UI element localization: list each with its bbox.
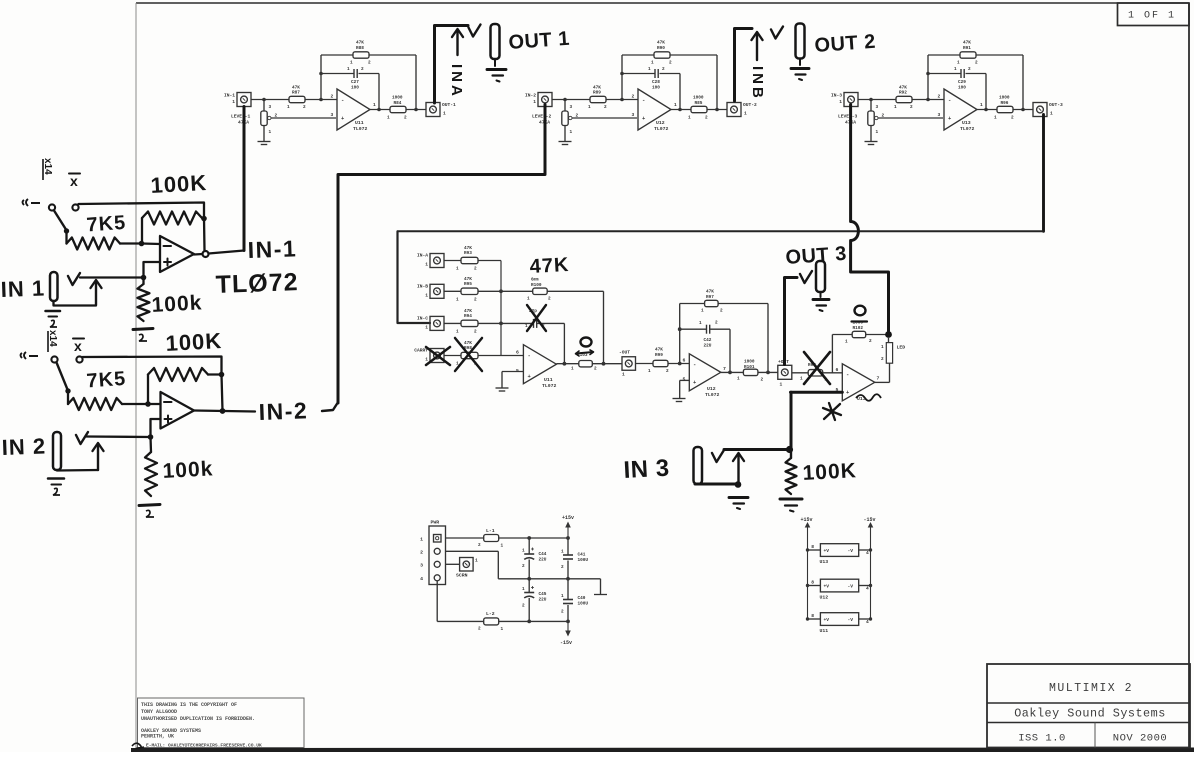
hand wire OUT-2 up: [735, 29, 753, 102]
hand wire minus input IN2: [148, 403, 161, 405]
hand wire +OUT up to OUT3 jack: [785, 278, 798, 365]
hand check mark at OUT1: [469, 25, 481, 37]
wire U11 output to R103: [556, 362, 578, 366]
hand X over CARRY connector: [426, 347, 450, 365]
svg-text:7K5: 7K5: [86, 212, 127, 237]
op-amp U12 mixer: [683, 354, 727, 398]
hand junction dot plus node IN1: [141, 275, 147, 281]
input connector IN-2: [525, 93, 552, 107]
hand label xbar IN1: [69, 173, 80, 189]
hand feedback resistor 100K IN1: [142, 212, 207, 251]
svg-text:x: x: [70, 173, 79, 189]
hand input jack IN2: [53, 432, 61, 470]
+15V arrow and label: [562, 515, 574, 538]
hand wire IN-3 down to U13 node with hop: [851, 105, 889, 332]
hand O mark above R102: [855, 306, 866, 316]
wire bus down to mixer IN-C: [398, 231, 431, 323]
ground at U11 pin5: [496, 372, 524, 392]
ground under LEVEL-3: [865, 141, 878, 143]
feedback resistor R100 47K: [501, 279, 604, 364]
svg-text:x: x: [74, 338, 83, 354]
ground under LEVEL-1: [258, 141, 271, 143]
level pot LEVEL-3: [838, 100, 885, 142]
long horizontal bus wire OUT-3 to IN-C: [398, 230, 1044, 232]
feedback net U11: [319, 55, 416, 110]
svg-text:IN 2: IN 2: [1, 433, 46, 460]
bottom scan edge band: [131, 748, 1194, 753]
hand arrow to IN B: [756, 34, 758, 60]
hand label x14 rotated IN1: [42, 158, 53, 180]
hand arrow to IN A: [456, 31, 458, 55]
capacitor C44 22u: [522, 538, 547, 579]
hand switch IN1: [49, 204, 79, 233]
hand hook IN-2 to vertical: [322, 403, 338, 411]
resistor R85 1000: [688, 96, 727, 121]
op-amp U12 buffer: [632, 89, 678, 132]
hand arrow IN1: [95, 282, 97, 305]
capacitor C27 100: [347, 67, 364, 91]
connector -OUT: [619, 350, 653, 378]
output connector OUT-2: [727, 102, 757, 117]
hand resistor 7K5 IN1: [67, 231, 145, 250]
wire R95 to summing bus: [478, 290, 501, 292]
hand wire stage1 IN-1 connector down: [243, 107, 246, 251]
0V mid rail: [446, 551, 601, 580]
summing bus vertical: [499, 261, 503, 356]
resistor R96 1000: [994, 96, 1033, 121]
hand shunt resistor 100k IN1: [138, 278, 150, 322]
connector +OUT: [778, 359, 808, 388]
level pot LEVEL-1: [231, 100, 278, 142]
capacitor C42 22p: [680, 321, 730, 373]
wire pot wiper to op-amp pin3: [271, 117, 336, 119]
hand jack symbol OUT2: [796, 24, 805, 59]
wire pot wiper to op-amp pin3: [878, 117, 943, 119]
hand output node IN1: [194, 251, 244, 258]
LED indicator: [875, 338, 905, 382]
wire bus to U11 pin6: [501, 350, 523, 356]
hand ground under IN3: [729, 498, 748, 510]
hand ground under OUT3 jack: [813, 292, 829, 311]
hand O mark above R103: [581, 338, 592, 347]
hand strike over R102 value: [852, 320, 868, 322]
resistor R91 47K feedback: [957, 41, 978, 66]
hand wire xbar contact to output IN2: [83, 357, 222, 374]
resistor R101 1000: [737, 360, 778, 383]
hand jack symbol IN3: [694, 447, 703, 484]
crossed out resistor after +OUT: [800, 363, 842, 383]
hand check mark IN3: [712, 450, 724, 462]
hand resistor 100K at IN3: [786, 450, 797, 495]
hand switch jack mark IN1: [23, 199, 41, 206]
hand X over 22p capacitor: [527, 305, 546, 331]
op-amp U13 output: [836, 364, 880, 402]
hand ground under OUT1 jack: [487, 59, 506, 82]
resistor R89 47K: [588, 86, 638, 111]
op-amp U11 mixer: [516, 345, 557, 389]
mixer input connector IN-B: [417, 283, 461, 298]
-15V arrow and label: [560, 621, 572, 646]
hand switch IN2: [51, 356, 82, 393]
crossed out capacitor 22p on bus: [501, 309, 564, 364]
hand wire to input jack IN1: [80, 276, 144, 278]
hand ground under 100k IN2: [139, 505, 160, 518]
capacitor C28 100: [648, 67, 665, 91]
wire PWR pin4 down: [437, 581, 484, 622]
wire IN-1 to R87: [251, 98, 289, 102]
svg-text:IN 1: IN 1: [0, 275, 45, 302]
hand scribble over U13 label: [856, 394, 881, 401]
wire L-1 to +15V rail: [499, 536, 570, 540]
hand ground under jack IN2: [48, 479, 64, 496]
hand check mark IN2: [76, 432, 88, 444]
feedback resistor R97 47K: [678, 290, 768, 373]
hand ground under 100K IN3: [780, 499, 802, 512]
wire pot wiper to op-amp pin3: [572, 117, 637, 119]
hand label x14 rotated IN2: [47, 330, 58, 352]
hand scribble near e-mail line: [132, 743, 144, 748]
sheet number box 1 OF 1: [1118, 3, 1190, 26]
hand check mark at OUT2: [771, 27, 783, 39]
copyright text box: [138, 698, 305, 749]
hand op-amp IN1 front end: [160, 236, 194, 272]
input connector IN-1: [224, 93, 251, 107]
hand wire xbar contact to output IN1: [79, 203, 205, 217]
inductor L-1: [478, 528, 504, 549]
output connector OUT-3: [1033, 102, 1063, 117]
svg-text:7K5: 7K5: [86, 368, 127, 393]
input connector IN-3: [831, 93, 858, 107]
IC power block U12: [806, 579, 872, 600]
power connector PWR: [420, 520, 445, 585]
wire op-amp output to R96: [977, 108, 1025, 112]
op-amp U13 buffer: [938, 89, 984, 132]
resistor R99 47K: [648, 348, 689, 375]
wire IN-3 to R92: [858, 98, 896, 102]
hand arrow IN2: [97, 445, 99, 470]
hand X over R98: [455, 338, 482, 371]
IC power block U13: [806, 544, 872, 565]
capacitor C29 100: [954, 67, 971, 91]
hand wire stage2 IN-2 connector down to IN-2 net: [338, 105, 545, 404]
hand output wire IN2: [194, 408, 255, 414]
wire OUT-3 down to bus: [1042, 115, 1045, 232]
hand feedback resistor 100K IN2: [148, 368, 224, 411]
inductor L-2: [478, 611, 570, 632]
mixer input connector CARRY: [414, 348, 461, 363]
mixer input connector IN-C: [417, 315, 461, 330]
resistor R98 47K (CARRY): [456, 341, 478, 367]
hand bypass wire U13 pin5: [791, 392, 843, 449]
resistor R95 47K (IN-B): [456, 277, 478, 303]
hand label xbar IN2: [73, 338, 84, 354]
hand resistor 7K5 IN2: [68, 391, 151, 410]
wire IN-2 to R89: [552, 98, 590, 102]
+15v rail label (IC power): [801, 517, 813, 619]
mixer input connector IN-A: [417, 253, 461, 268]
hand jack symbol OUT1: [491, 24, 500, 59]
feedback resistor R102 1000: [832, 321, 888, 373]
ground at U12 pin5: [673, 380, 690, 401]
capacitor C45 22u: [522, 579, 547, 622]
resistor R93 47K (IN-A): [456, 246, 478, 272]
hand check mark IN1: [68, 273, 80, 285]
hand star mark below U13: [823, 403, 841, 420]
wire op-amp output to R85: [671, 108, 719, 112]
hand arrow IN3: [737, 455, 739, 485]
hand ground under jack IN1: [46, 311, 61, 327]
screen connector SCRN: [446, 558, 479, 579]
hand ground under 100k IN1: [133, 329, 153, 342]
wire R93 to summing bus: [478, 260, 501, 262]
hand jack symbol OUT3: [816, 261, 825, 292]
wire R98 to summing bus: [478, 355, 501, 357]
resistor R94 47K (IN-C): [456, 309, 478, 335]
hand wire minus input IN1: [142, 242, 161, 245]
hand junction dot plus node IN2: [148, 434, 154, 440]
title block: [987, 664, 1190, 748]
scan noise overlay: [0, 0, 1, 1]
hand input jack IN1: [50, 272, 58, 301]
level pot LEVEL-2: [532, 100, 579, 142]
ground at 0V rail: [594, 579, 607, 595]
capacitor C40 100u: [561, 579, 588, 622]
feedback net U13: [926, 55, 1023, 110]
hand jack sleeve wire IN2: [57, 469, 98, 472]
-15v rail label (IC power): [864, 517, 876, 619]
wire op-amp output to R84: [370, 108, 418, 112]
ground under LEVEL-2: [559, 141, 572, 143]
hand wire OUT-1 up: [435, 26, 469, 104]
hand jack sleeve wire IN1: [54, 301, 97, 306]
resistor R103 1000: [571, 353, 622, 372]
wire U12 output to R101: [721, 371, 744, 375]
hand ground under OUT2 jack: [791, 59, 809, 81]
resistor R84 1000: [387, 96, 426, 121]
capacitor C41 100u: [561, 538, 588, 579]
resistor R88 47K feedback: [350, 41, 371, 66]
hand switch jack mark IN2: [21, 352, 39, 359]
hand wire jack to 100K node: [724, 446, 793, 453]
resistor R92 47K: [894, 86, 944, 111]
hand op-amp IN2 front end: [161, 392, 195, 429]
hand strike arrow over R103 label: [576, 350, 594, 356]
hand wire plus input IN2: [151, 419, 161, 437]
hand shunt resistor 100k IN2: [145, 437, 157, 496]
hand check mark OUT3: [800, 271, 812, 283]
op-amp U11 buffer: [331, 89, 377, 132]
hand wire plus input IN1: [144, 262, 161, 278]
resistor R90 47K feedback: [651, 41, 672, 66]
junction dot feedback node: [885, 331, 892, 338]
hand wire to input jack IN2: [86, 435, 151, 438]
IC power block U11: [806, 613, 872, 634]
hand wire jack sleeve: [695, 481, 741, 488]
output connector OUT-1: [426, 102, 456, 117]
feedback net U12: [620, 55, 717, 110]
wire PWR pin1 to L-1: [446, 537, 484, 539]
resistor R87 47K: [287, 86, 337, 111]
wire R94 to summing bus: [478, 322, 501, 324]
hand X over resistor R98b: [804, 352, 830, 384]
